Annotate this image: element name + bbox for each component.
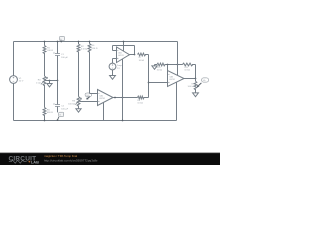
svg-text:10 kΩ: 10 kΩ	[184, 70, 190, 72]
svg-text:R3: R3	[72, 101, 76, 103]
svg-text:R1: R1	[47, 47, 51, 49]
svg-text:C1: C1	[61, 54, 65, 56]
svg-text:100 kΩ: 100 kΩ	[68, 103, 75, 105]
svg-text:V1: V1	[19, 78, 22, 80]
svg-text:R4: R4	[38, 80, 42, 82]
svg-text:R6: R6	[92, 45, 96, 47]
svg-text:10 kΩ: 10 kΩ	[139, 60, 145, 62]
svg-text:100 µF: 100 µF	[61, 57, 69, 59]
svg-text:LM741: LM741	[118, 55, 124, 57]
svg-text:100 kΩ: 100 kΩ	[188, 86, 195, 88]
svg-text:R2: R2	[81, 46, 85, 48]
svg-text:1 kΩ: 1 kΩ	[36, 82, 41, 84]
svg-text:LAB: LAB	[31, 159, 39, 164]
svg-text:http://circuitlab.com/c/cv5959: http://circuitlab.com/c/cv59597T2pq3c8z	[44, 158, 98, 162]
svg-text:50k: 50k	[203, 80, 206, 82]
svg-text:10 kΩ: 10 kΩ	[137, 103, 143, 105]
svg-text:20 V: 20 V	[19, 81, 24, 83]
svg-text:2 V: 2 V	[117, 68, 121, 70]
svg-text:680 Ω: 680 Ω	[47, 112, 53, 114]
svg-text:100 µF: 100 µF	[61, 108, 69, 110]
svg-text:4.6 kΩ: 4.6 kΩ	[81, 49, 88, 51]
svg-text:Temp: Temp	[117, 65, 123, 67]
svg-text:LM741: LM741	[169, 79, 175, 81]
svg-text:LM741: LM741	[99, 98, 105, 100]
svg-text:C2: C2	[61, 106, 65, 108]
svg-text:240 Ω: 240 Ω	[47, 50, 53, 52]
svg-text:10 kΩ: 10 kΩ	[157, 70, 163, 72]
svg-text:R5: R5	[47, 109, 51, 111]
svg-text:910 Ω: 910 Ω	[92, 48, 98, 50]
